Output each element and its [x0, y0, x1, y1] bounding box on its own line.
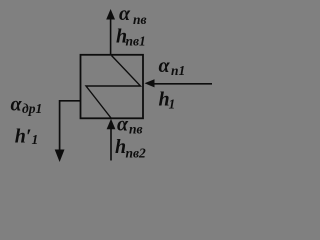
arrow: feedwater outlet head [106, 9, 115, 20]
svg-text:α: α [159, 55, 171, 77]
arrow: steam inlet head [145, 79, 155, 87]
svg-text:пв2: пв2 [126, 146, 147, 161]
svg-text:др1: др1 [22, 101, 42, 116]
svg-text:α: α [117, 114, 129, 136]
svg-text:α: α [11, 93, 23, 115]
heat exchanger box [81, 55, 144, 119]
wire: feedwater outlet shaft [110, 19, 112, 55]
svg-text:пв1: пв1 [126, 34, 146, 49]
arrow: drain outlet head [55, 150, 65, 163]
svg-text:пв: пв [133, 12, 147, 27]
svg-text:п1: п1 [171, 63, 185, 78]
svg-text:1: 1 [32, 132, 39, 147]
arrow: feedwater inlet head [107, 119, 116, 130]
svg-text:1: 1 [169, 97, 176, 112]
heating coil zigzag [86, 56, 141, 119]
svg-text:h′: h′ [15, 126, 32, 148]
svg-text:h: h [115, 136, 126, 158]
wire: drain outlet elbow [60, 101, 81, 150]
svg-text:пв: пв [129, 122, 143, 137]
wire: steam inlet shaft [153, 83, 212, 85]
svg-text:α: α [119, 3, 131, 25]
wire: feedwater inlet shaft [110, 129, 112, 161]
